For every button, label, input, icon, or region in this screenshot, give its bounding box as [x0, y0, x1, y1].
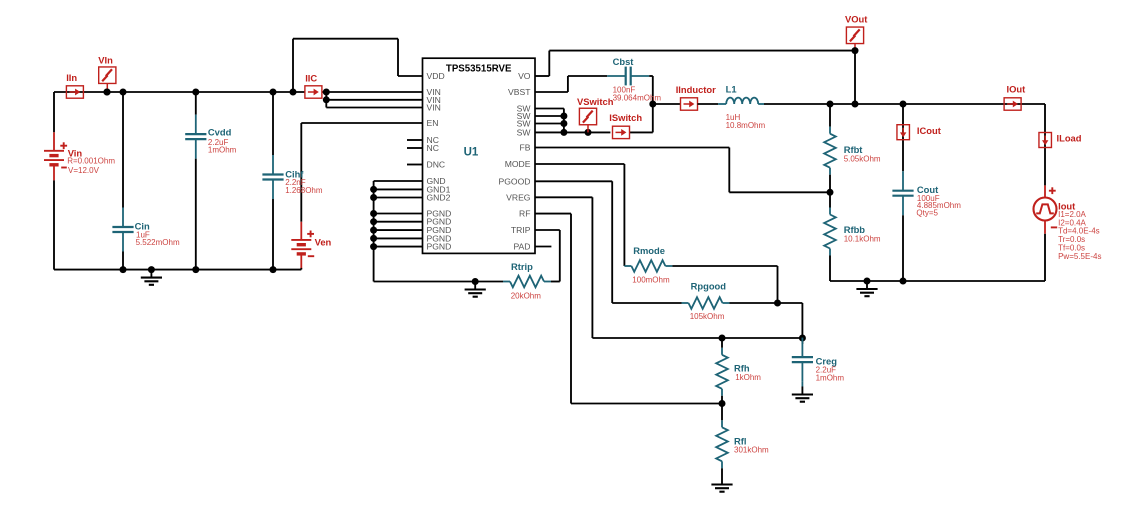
svg-text:Rtrip: Rtrip — [511, 261, 533, 272]
svg-text:5.05kOhm: 5.05kOhm — [844, 155, 881, 164]
svg-text:Rpgood: Rpgood — [691, 281, 727, 292]
svg-text:Ven: Ven — [315, 236, 332, 247]
svg-text:GND2: GND2 — [427, 193, 451, 203]
svg-text:TRIP: TRIP — [511, 225, 531, 235]
svg-text:PAD: PAD — [513, 242, 530, 252]
svg-text:ICout: ICout — [917, 125, 941, 136]
svg-text:39.064mOhm: 39.064mOhm — [613, 94, 662, 103]
svg-text:10.1kOhm: 10.1kOhm — [844, 235, 881, 244]
svg-text:EN: EN — [427, 118, 439, 128]
svg-text:V=12.0V: V=12.0V — [68, 166, 100, 175]
svg-text:PGND: PGND — [427, 242, 452, 252]
svg-text:TPS53515RVE: TPS53515RVE — [446, 64, 512, 75]
svg-text:Rfbb: Rfbb — [844, 224, 866, 235]
svg-text:VOut: VOut — [845, 14, 867, 25]
svg-text:5.522mOhm: 5.522mOhm — [136, 238, 180, 247]
svg-text:IIC: IIC — [305, 72, 317, 83]
svg-text:1mOhm: 1mOhm — [816, 373, 845, 382]
svg-text:Cvdd: Cvdd — [208, 126, 232, 137]
svg-text:VO: VO — [518, 71, 531, 81]
svg-text:1mOhm: 1mOhm — [208, 146, 237, 155]
svg-text:PGOOD: PGOOD — [499, 176, 531, 186]
svg-text:SW: SW — [517, 127, 532, 137]
svg-text:L1: L1 — [726, 84, 737, 95]
svg-text:1kOhm: 1kOhm — [735, 373, 761, 382]
svg-text:301kOhm: 301kOhm — [734, 446, 769, 455]
svg-text:Rfbt: Rfbt — [844, 144, 863, 155]
svg-text:IIn: IIn — [66, 72, 77, 83]
svg-text:105kOhm: 105kOhm — [690, 312, 725, 321]
svg-text:VBST: VBST — [508, 87, 531, 97]
svg-text:VSwitch: VSwitch — [577, 96, 614, 107]
svg-text:20kOhm: 20kOhm — [511, 291, 542, 300]
svg-text:Pw=5.5E-4s: Pw=5.5E-4s — [1058, 252, 1101, 261]
svg-text:10.8mOhm: 10.8mOhm — [726, 121, 766, 130]
svg-text:RF: RF — [519, 209, 530, 219]
svg-text:ILoad: ILoad — [1057, 133, 1082, 144]
svg-text:U1: U1 — [464, 147, 479, 159]
svg-text:DNC: DNC — [427, 160, 446, 170]
svg-text:IInductor: IInductor — [676, 84, 716, 95]
svg-text:VIn: VIn — [98, 55, 113, 66]
svg-text:R=0.001Ohm: R=0.001Ohm — [67, 156, 115, 165]
svg-text:Cbst: Cbst — [613, 56, 634, 67]
svg-text:ISwitch: ISwitch — [609, 112, 642, 123]
svg-text:NC: NC — [427, 143, 439, 153]
svg-text:VREG: VREG — [506, 192, 531, 202]
svg-text:IOut: IOut — [1007, 84, 1026, 95]
svg-text:1.268Ohm: 1.268Ohm — [285, 186, 323, 195]
svg-text:MODE: MODE — [505, 159, 531, 169]
svg-text:VDD: VDD — [427, 71, 445, 81]
svg-text:Qty=5: Qty=5 — [916, 209, 938, 218]
svg-text:Rmode: Rmode — [633, 245, 665, 256]
svg-text:VIN: VIN — [427, 103, 441, 113]
svg-text:100mOhm: 100mOhm — [632, 275, 670, 284]
svg-text:Rfh: Rfh — [734, 363, 750, 374]
svg-text:FB: FB — [520, 143, 531, 153]
